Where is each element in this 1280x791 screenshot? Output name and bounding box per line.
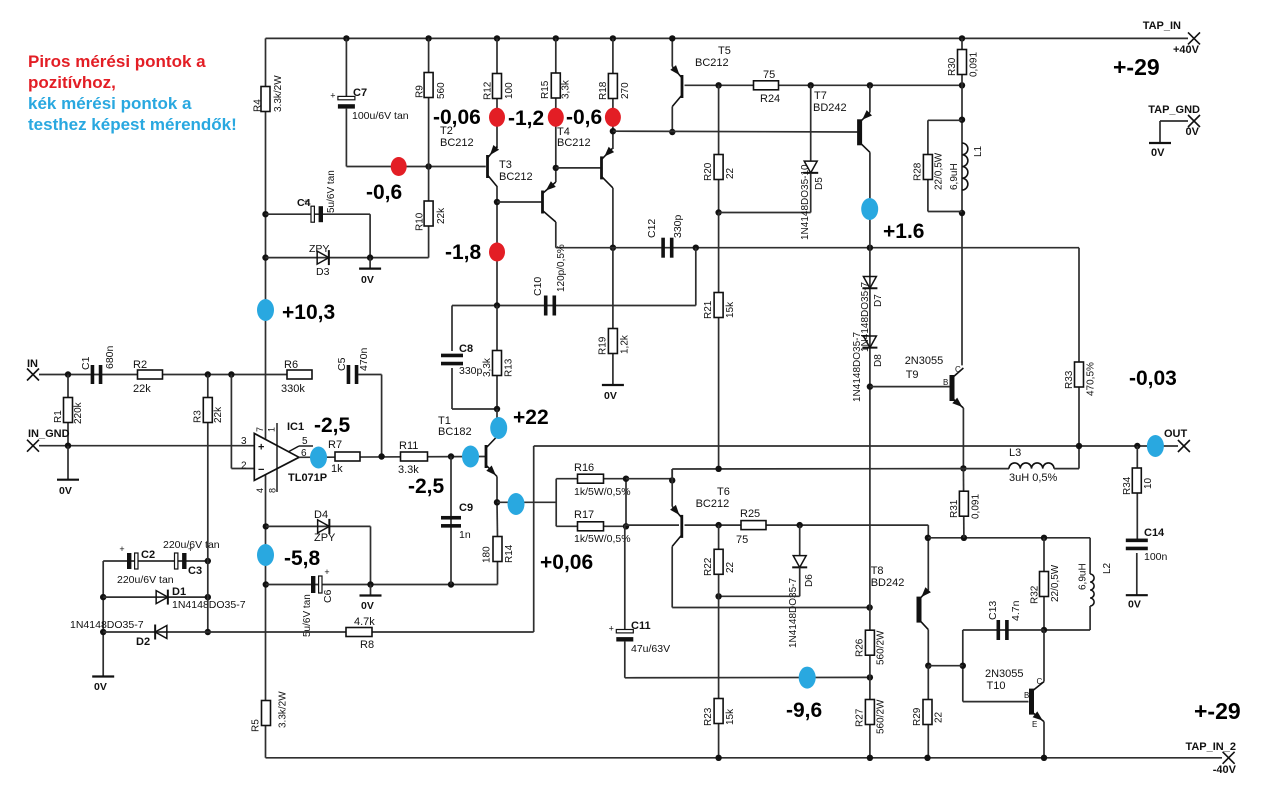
wire R15 column [553, 35, 559, 41]
wire R30 column [959, 35, 965, 41]
svg-text:BC212: BC212 [695, 57, 729, 69]
wire T9 emitter down [962, 408, 964, 468]
svg-text:1N4148DO35-7: 1N4148DO35-7 [70, 619, 144, 631]
svg-text:C10: C10 [532, 277, 544, 296]
svg-text:T9: T9 [906, 369, 919, 381]
svg-text:1N4148DO35-7: 1N4148DO35-7 [788, 578, 799, 648]
diode D3 ZPY [317, 251, 329, 264]
svg-text:15k: 15k [725, 301, 736, 318]
svg-text:-2,5: -2,5 [314, 414, 351, 437]
svg-text:560/2W: 560/2W [876, 699, 887, 734]
svg-text:ZPY: ZPY [314, 532, 336, 544]
svg-text:1k/5W/0,5%: 1k/5W/0,5% [574, 486, 631, 498]
resistor R25 [741, 521, 766, 530]
capacitor C10 [544, 296, 548, 316]
svg-text:D5: D5 [814, 177, 825, 190]
svg-text:1k/5W/0,5%: 1k/5W/0,5% [574, 533, 631, 545]
svg-text:6,9uH: 6,9uH [1077, 563, 1088, 590]
svg-text:0V: 0V [361, 274, 374, 286]
capacitor C2 [127, 553, 131, 569]
wire T6 collector down [671, 546, 673, 607]
svg-text:L3: L3 [1009, 447, 1021, 459]
wire IN_GND line to op-amp + [39, 445, 254, 447]
diode D5 [810, 85, 812, 161]
measure point red -1,2 [548, 108, 564, 127]
svg-text:22: 22 [725, 561, 736, 573]
inductor L2 [1089, 538, 1091, 574]
transistor T5 BC212 [681, 75, 684, 98]
svg-text:0V: 0V [1128, 599, 1141, 611]
wire T10 emitter down [1043, 722, 1045, 758]
svg-text:3,3k: 3,3k [482, 357, 493, 377]
svg-text:-0,6: -0,6 [566, 106, 602, 129]
svg-text:0V: 0V [1186, 126, 1200, 138]
svg-text:B: B [1024, 691, 1029, 700]
svg-text:+: + [324, 567, 329, 577]
svg-text:C12: C12 [646, 219, 658, 238]
svg-text:R26: R26 [855, 638, 866, 657]
svg-text:D6: D6 [804, 574, 815, 587]
svg-text:4.7n: 4.7n [1010, 600, 1022, 621]
svg-text:R11: R11 [399, 440, 418, 452]
wire T7 emitter up [869, 85, 871, 112]
svg-text:T5: T5 [718, 45, 731, 57]
svg-text:R14: R14 [504, 544, 515, 563]
svg-text:2: 2 [241, 461, 247, 472]
measure point blue -2,5 [310, 447, 327, 469]
svg-text:R8: R8 [360, 639, 374, 651]
resistor R7 [335, 452, 360, 461]
svg-text:3: 3 [241, 436, 247, 447]
wire R20 to D5 return [719, 212, 811, 214]
svg-text:+22: +22 [513, 406, 549, 429]
svg-text:+: + [188, 544, 193, 554]
op-amp IC1 TL071P [254, 433, 299, 480]
svg-text:D7: D7 [873, 294, 884, 307]
resistor R27 [869, 677, 871, 757]
svg-text:R6: R6 [284, 359, 298, 371]
measure point red -1,8 [489, 243, 505, 262]
diode D8 [863, 336, 876, 348]
svg-text:470,5%: 470,5% [1086, 362, 1097, 396]
svg-text:D8: D8 [873, 354, 884, 367]
svg-text:100u/6V tan: 100u/6V tan [352, 110, 409, 122]
svg-text:R27: R27 [855, 708, 866, 727]
svg-text:TAP_IN_2: TAP_IN_2 [1185, 741, 1236, 753]
wire C4 down to D3 wire [369, 214, 371, 257]
svg-text:-2,5: -2,5 [408, 475, 445, 498]
svg-text:C2: C2 [141, 549, 155, 561]
svg-text:B: B [943, 378, 948, 387]
wire D1 row [103, 596, 208, 598]
svg-text:22: 22 [725, 167, 736, 179]
capacitor C13 [997, 620, 1001, 640]
capacitor C3 [175, 553, 178, 569]
wire top +40V rail [266, 37, 1189, 39]
svg-text:22/0,5W: 22/0,5W [1050, 564, 1061, 602]
svg-text:D2: D2 [136, 636, 150, 648]
svg-text:C1: C1 [80, 356, 92, 370]
svg-text:T2: T2 [440, 125, 453, 137]
svg-text:D1: D1 [172, 586, 186, 598]
resistor R29 [927, 666, 929, 758]
wire R16/R17 join [625, 479, 627, 527]
svg-text:1n: 1n [459, 529, 471, 541]
resistor R32 [1043, 538, 1045, 630]
svg-text:+10,3: +10,3 [282, 301, 335, 324]
svg-text:R18: R18 [598, 81, 609, 100]
svg-text:R16: R16 [574, 462, 594, 474]
svg-text:T6: T6 [717, 486, 730, 498]
svg-text:2N3055: 2N3055 [985, 668, 1024, 680]
svg-text:5u/6V tan: 5u/6V tan [326, 170, 337, 213]
svg-text:L1: L1 [973, 145, 984, 157]
wire inverting input feed [230, 375, 232, 469]
svg-text:IN_GND: IN_GND [28, 428, 70, 440]
svg-text:R32: R32 [1030, 585, 1041, 604]
resistor R33 [1078, 248, 1080, 446]
resistor R22 [718, 525, 720, 596]
capacitor C6 [311, 576, 315, 593]
capacitor C14 [1126, 539, 1148, 543]
svg-text:0V: 0V [604, 390, 617, 402]
svg-text:330p: 330p [459, 365, 483, 377]
transistor T1 BC182 [485, 445, 488, 468]
terminal TAP_IN_2 [1223, 752, 1235, 764]
ground at D3 node [369, 258, 371, 269]
svg-text:TL071P: TL071P [288, 472, 327, 484]
svg-text:0V: 0V [1151, 147, 1165, 159]
ground at R1 [67, 446, 69, 480]
svg-text:C8: C8 [459, 343, 473, 355]
wire left supply branch (V+ column) [265, 38, 267, 757]
svg-text:R7: R7 [328, 439, 342, 451]
svg-text:kék mérési pontok a: kék mérési pontok a [28, 94, 192, 113]
resistor R3 [207, 375, 209, 446]
svg-text:C: C [1037, 677, 1043, 686]
svg-text:BC182: BC182 [438, 426, 472, 438]
diode D2 [155, 626, 167, 639]
svg-text:1N4148DO35-10: 1N4148DO35-10 [800, 164, 811, 240]
wire R12 column [494, 35, 500, 41]
wire C7 to T2 base (-0,6 node) [345, 108, 347, 167]
svg-text:+40V: +40V [1173, 44, 1200, 56]
svg-text:5: 5 [302, 436, 308, 447]
svg-text:-0,6: -0,6 [366, 181, 402, 204]
svg-text:ZPY: ZPY [309, 243, 329, 255]
svg-text:−: − [258, 464, 264, 476]
wire bias row (C11/T6 base to T8) [625, 524, 679, 526]
diode D7 [863, 277, 876, 289]
transistor T3 BC212 [541, 191, 544, 214]
svg-text:75: 75 [736, 534, 748, 546]
svg-text:10: 10 [1143, 477, 1154, 489]
svg-text:R20: R20 [703, 162, 714, 181]
svg-text:C14: C14 [1144, 527, 1165, 539]
svg-text:22k: 22k [133, 383, 151, 395]
resistor R1 [67, 375, 69, 446]
svg-text:220u/6V tan: 220u/6V tan [117, 574, 174, 586]
diode D1 [156, 591, 168, 604]
svg-text:pozitívhoz,: pozitívhoz, [28, 73, 116, 92]
svg-text:R17: R17 [574, 509, 594, 521]
wire T8 collector down [927, 630, 929, 666]
capacitor C7 [338, 96, 355, 99]
svg-text:1: 1 [267, 427, 277, 432]
svg-text:120p/0,5%: 120p/0,5% [556, 244, 567, 292]
transistor T9 2N3055 [950, 375, 955, 401]
measure point red -0,6 [605, 108, 621, 127]
svg-text:D3: D3 [316, 266, 330, 278]
svg-text:IN: IN [27, 358, 38, 370]
resistor R17 [556, 525, 626, 527]
measure point blue +0,06 node [508, 493, 525, 515]
ground at R19 [602, 384, 624, 386]
capacitor C8 [451, 306, 453, 352]
resistor R28 (parallel L1) [928, 119, 962, 121]
wire input line [39, 374, 299, 376]
wire T3 collector to compensation row [555, 222, 557, 248]
capacitor C12 [661, 238, 665, 258]
transistor T2 BC212 [486, 155, 489, 178]
svg-text:BC212: BC212 [696, 498, 730, 510]
measure point blue -5,8 [257, 544, 274, 566]
measure point blue +10,3 [257, 299, 274, 321]
svg-text:D4: D4 [314, 509, 328, 521]
capacitor C1 [91, 365, 95, 384]
svg-text:220k: 220k [73, 401, 84, 424]
svg-text:22: 22 [934, 711, 945, 723]
measure point blue +22 [490, 417, 507, 439]
wire T7 collector down / diode string column [869, 152, 871, 607]
svg-text:R19: R19 [598, 336, 609, 355]
capacitor C9 [450, 457, 452, 585]
svg-text:R28: R28 [913, 162, 924, 181]
svg-text:+: + [258, 442, 264, 454]
svg-text:R3: R3 [193, 410, 204, 423]
resistor R21 [718, 213, 720, 469]
svg-text:1N4148DO35-7: 1N4148DO35-7 [172, 599, 246, 611]
wire R9 column [425, 35, 431, 41]
ground lower-left [92, 675, 114, 677]
svg-text:testhez képest mérendők!: testhez képest mérendők! [28, 115, 237, 134]
svg-text:C: C [955, 365, 961, 374]
svg-text:5u/6V tan: 5u/6V tan [302, 594, 313, 637]
resistor R10 [424, 201, 433, 226]
svg-text:C13: C13 [987, 601, 999, 620]
svg-text:C6: C6 [322, 589, 334, 603]
wire T2 collector down [496, 186, 498, 306]
svg-text:0,091: 0,091 [969, 52, 980, 77]
svg-text:T7: T7 [814, 90, 827, 102]
measure point red -0,06 [489, 108, 505, 127]
svg-text:3uH 0,5%: 3uH 0,5% [1009, 472, 1058, 484]
svg-text:1k: 1k [331, 463, 343, 475]
resistor R19 [612, 248, 614, 385]
capacitor C4 [311, 206, 314, 222]
svg-text:R22: R22 [703, 557, 714, 576]
measure point blue -9,6 [799, 667, 816, 689]
wire T10 base bracket [962, 630, 964, 702]
svg-text:R30: R30 [947, 57, 958, 76]
wire L3 row [963, 468, 1009, 470]
svg-text:R10: R10 [415, 212, 426, 231]
inductor L3 [1009, 463, 1054, 469]
svg-text:+-29: +-29 [1113, 54, 1160, 80]
wire op-amp output row [299, 456, 486, 459]
resistor R14 [493, 537, 502, 562]
svg-text:+0,06: +0,06 [540, 551, 593, 574]
svg-text:22k: 22k [436, 207, 447, 224]
wire T6 emitter up to R16/R17 node [671, 469, 673, 506]
svg-text:R24: R24 [760, 93, 780, 105]
wire emitter row y=538 [928, 537, 1090, 539]
resistor R12 [493, 74, 502, 99]
wire T5 base row to R30 [685, 84, 963, 86]
svg-text:C9: C9 [459, 502, 473, 514]
wire T4 collector down to compensation row [612, 188, 614, 248]
svg-text:BC212: BC212 [557, 137, 591, 149]
measure point blue OUT [1147, 435, 1164, 457]
svg-text:OUT: OUT [1164, 428, 1188, 440]
svg-text:1N4148DO35-7: 1N4148DO35-7 [852, 332, 863, 402]
wire T6 collector row to diode string [672, 607, 869, 609]
ground at C6 node [370, 585, 372, 596]
svg-text:-1,8: -1,8 [445, 241, 482, 264]
resistor R9 [424, 73, 433, 98]
ground at C14 [1126, 594, 1148, 596]
diode D6 [799, 525, 801, 555]
svg-text:IC1: IC1 [287, 421, 304, 433]
terminal OUT [1178, 440, 1190, 452]
svg-text:C4: C4 [297, 197, 311, 209]
measure point blue -2,5 (T1 base) [462, 446, 479, 468]
wire mirror row y=132 [613, 130, 858, 133]
measure point blue +1.6 [861, 198, 878, 220]
wire T4 base row [556, 167, 602, 169]
diode D4 ZPY [318, 520, 330, 533]
svg-text:+: + [119, 544, 124, 554]
wire T5 emitter to rail [671, 38, 673, 66]
svg-text:Piros mérési pontok a: Piros mérési pontok a [28, 52, 206, 71]
wire T10 collector up [1043, 630, 1045, 682]
wire C13 row [963, 629, 1044, 631]
svg-text:75: 75 [763, 69, 775, 81]
svg-text:E: E [1032, 720, 1037, 729]
svg-text:22k: 22k [213, 406, 224, 423]
svg-text:R2: R2 [133, 359, 147, 371]
svg-text:L2: L2 [1102, 562, 1113, 574]
svg-text:TAP_GND: TAP_GND [1148, 104, 1200, 116]
svg-text:+1.6: +1.6 [883, 220, 924, 243]
measure point red -0,6 [391, 157, 407, 176]
wire C10 row [452, 305, 696, 307]
resistor R6 [287, 370, 312, 379]
wire left bracket to ground [102, 561, 104, 677]
wire T8 collector to T10 base [928, 665, 963, 667]
resistor R18 [608, 74, 617, 99]
resistor R4 [261, 87, 270, 112]
inductor L1 [962, 143, 968, 190]
svg-text:R1: R1 [53, 410, 64, 423]
svg-text:BD242: BD242 [813, 102, 847, 114]
resistor R23 [718, 596, 720, 758]
svg-text:2N3055: 2N3055 [905, 355, 944, 367]
svg-text:100n: 100n [1144, 551, 1168, 563]
svg-text:0V: 0V [59, 485, 72, 497]
svg-text:R21: R21 [703, 300, 714, 319]
svg-text:180: 180 [482, 546, 493, 563]
svg-text:-5,8: -5,8 [284, 547, 321, 570]
capacitor C11 [624, 525, 626, 629]
svg-text:6,9uH: 6,9uH [949, 163, 960, 190]
svg-text:T10: T10 [987, 680, 1006, 692]
svg-text:3.3k/2W: 3.3k/2W [273, 75, 284, 112]
svg-text:-1,2: -1,2 [508, 107, 544, 130]
svg-text:R34: R34 [1122, 476, 1133, 495]
wire C2-C3 row [103, 560, 208, 562]
svg-text:8: 8 [268, 488, 278, 493]
wire C4 branch [262, 211, 268, 217]
svg-text:330k: 330k [281, 383, 305, 395]
svg-text:330p: 330p [672, 214, 684, 238]
resistor R31 [962, 468, 965, 537]
svg-text:T8: T8 [871, 565, 884, 577]
wire T1 collector up [496, 409, 498, 437]
wire -9,6 row [625, 676, 870, 678]
svg-text:R25: R25 [740, 508, 760, 520]
wire T5 collector down [671, 107, 673, 133]
svg-text:680n: 680n [104, 345, 116, 369]
transistor T8 BD242 [917, 597, 922, 623]
svg-text:C11: C11 [631, 620, 651, 632]
svg-text:R12: R12 [483, 81, 494, 100]
wire emitter node to R16/R17 [497, 501, 556, 503]
wire T1 emitter down [496, 477, 498, 503]
svg-text:R23: R23 [703, 707, 714, 726]
wire R3 lower column [207, 446, 209, 632]
svg-text:R4: R4 [253, 99, 264, 112]
op-amp pin5 stub [288, 446, 299, 452]
svg-text:T3: T3 [499, 159, 512, 171]
wire OUT row [534, 445, 1178, 447]
svg-text:4: 4 [255, 488, 265, 493]
svg-text:R29: R29 [912, 707, 923, 726]
wire T3 base row [497, 201, 543, 203]
resistor R5 [262, 701, 271, 726]
svg-text:BD242: BD242 [871, 577, 905, 589]
resistor R8 [346, 628, 372, 637]
svg-text:100: 100 [504, 82, 515, 99]
resistor R11 [401, 452, 428, 461]
wire D4 row [263, 523, 269, 529]
resistor R26 [869, 608, 871, 678]
wire feedback from OUT [533, 446, 535, 632]
svg-text:R15: R15 [540, 80, 551, 99]
capacitor C5 [347, 365, 351, 384]
svg-text:-40V: -40V [1213, 764, 1237, 776]
svg-text:BC212: BC212 [440, 137, 474, 149]
resistor R20 [718, 85, 720, 212]
svg-text:15k: 15k [725, 708, 736, 725]
wire C5 to R7/R11 node [358, 374, 382, 376]
wire D2 / R8 feedback row [103, 631, 534, 633]
svg-text:22/0,5W: 22/0,5W [934, 152, 945, 190]
svg-text:0,091: 0,091 [971, 494, 982, 519]
transistor T10 2N3055 [1029, 689, 1034, 715]
resistor R13 [496, 306, 498, 410]
wire output emitter row y=469 [671, 469, 673, 480]
